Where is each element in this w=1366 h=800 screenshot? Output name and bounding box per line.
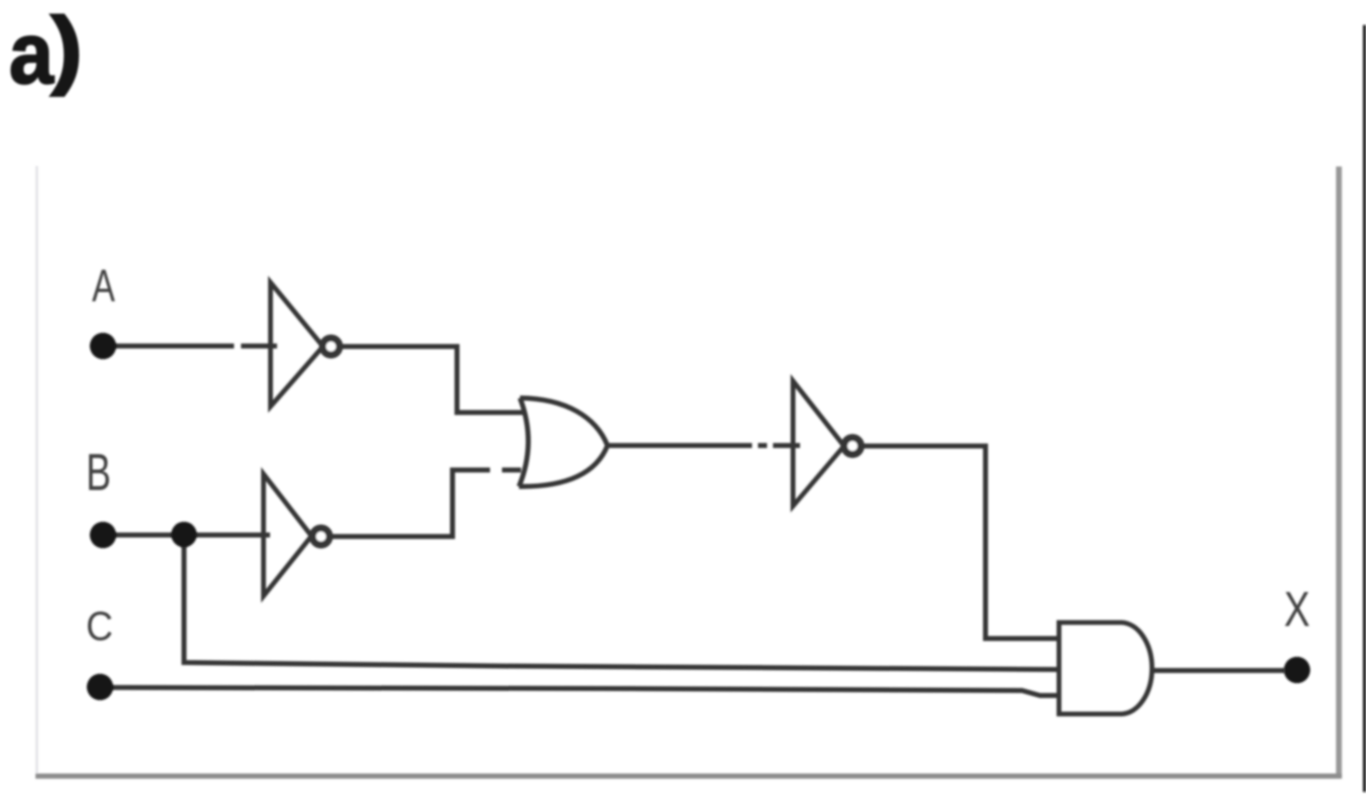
svg-text:C: C: [86, 603, 113, 649]
svg-text:A: A: [92, 260, 115, 311]
svg-text:B: B: [86, 444, 111, 502]
svg-text:X: X: [1284, 583, 1310, 637]
